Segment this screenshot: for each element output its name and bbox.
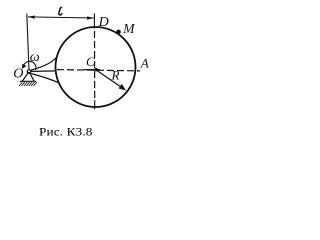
- svg-text:M: M: [122, 21, 135, 36]
- svg-text:C: C: [86, 54, 95, 69]
- svg-text:A: A: [140, 56, 149, 71]
- svg-text:O: O: [13, 66, 23, 81]
- svg-text:D: D: [98, 15, 109, 30]
- svg-text:Рис. К3.8: Рис. К3.8: [39, 124, 93, 138]
- svg-text:R: R: [111, 68, 120, 83]
- svg-text:ω: ω: [30, 50, 40, 65]
